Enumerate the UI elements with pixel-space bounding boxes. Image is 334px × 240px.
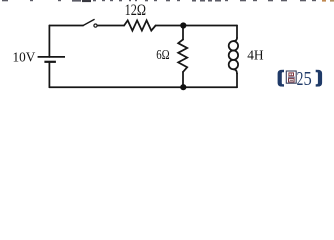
svg-text:10V: 10V — [13, 51, 36, 66]
svg-text:12Ω: 12Ω — [125, 2, 146, 19]
svg-text:4H: 4H — [247, 48, 263, 63]
svg-text:2: 2 — [297, 68, 304, 90]
svg-text:5: 5 — [304, 68, 312, 90]
svg-text:6Ω: 6Ω — [156, 48, 169, 63]
